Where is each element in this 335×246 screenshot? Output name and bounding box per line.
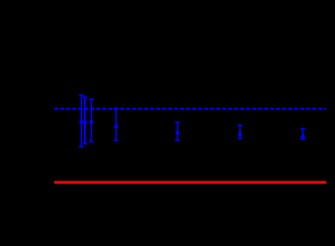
errorbar point B <box>82 97 87 144</box>
errorbar point D <box>114 108 119 140</box>
blue dashed horizontal reference line <box>54 108 326 110</box>
errorbar point C <box>89 99 94 142</box>
errorbar point F <box>237 125 242 138</box>
errorbar point A <box>79 95 84 147</box>
errorbar point G <box>300 129 305 139</box>
errorbar point E <box>175 122 180 140</box>
red solid horizontal line <box>54 181 326 184</box>
